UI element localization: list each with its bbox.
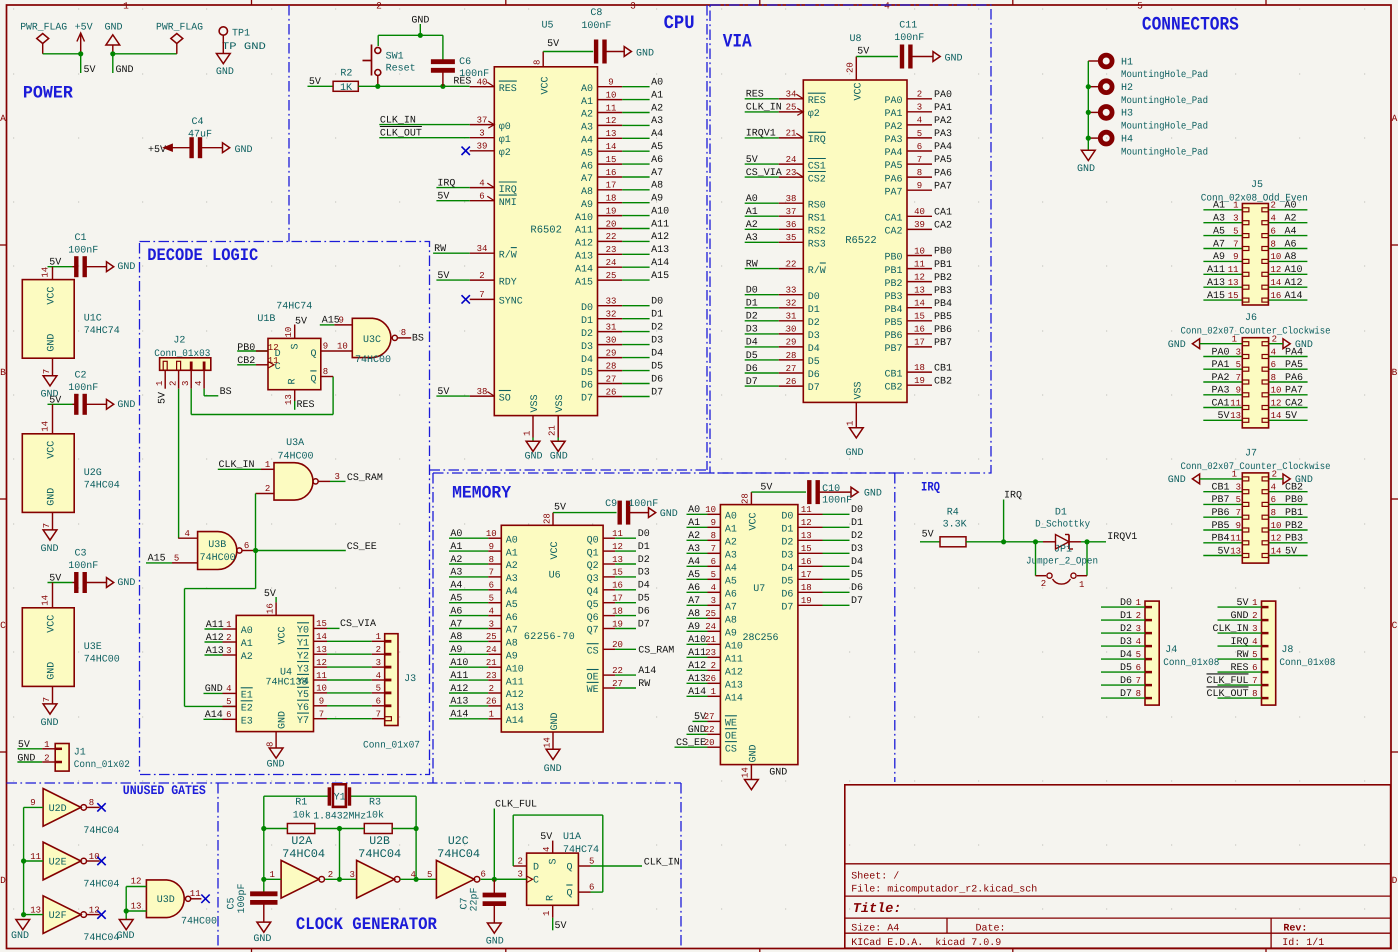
- svg-text:16: 16: [265, 603, 275, 614]
- svg-text:D3: D3: [851, 544, 863, 555]
- svg-text:GND: GND: [116, 65, 134, 76]
- svg-text:74HC04: 74HC04: [83, 880, 119, 891]
- svg-text:A5: A5: [651, 142, 663, 153]
- svg-text:2: 2: [1272, 470, 1277, 480]
- svg-text:2: 2: [265, 484, 270, 494]
- svg-text:A0: A0: [241, 626, 253, 637]
- svg-text:File: micomputador_r2.kicad_sc: File: micomputador_r2.kicad_sch: [851, 884, 1037, 896]
- svg-text:PB0: PB0: [934, 247, 952, 258]
- svg-text:1: 1: [44, 740, 49, 750]
- svg-text:D5: D5: [651, 361, 663, 372]
- svg-text:RES: RES: [746, 90, 764, 101]
- svg-text:GND: GND: [1168, 475, 1186, 486]
- svg-text:D7: D7: [651, 387, 663, 398]
- svg-text:A14: A14: [575, 264, 593, 275]
- svg-text:3: 3: [630, 1, 636, 12]
- svg-text:SYNC: SYNC: [499, 297, 523, 308]
- svg-text:3: 3: [181, 381, 191, 386]
- svg-text:4: 4: [185, 529, 190, 539]
- svg-text:74HC74: 74HC74: [276, 302, 312, 313]
- svg-text:U3D: U3D: [157, 895, 175, 906]
- svg-text:U2D: U2D: [49, 804, 67, 815]
- svg-text:12: 12: [914, 272, 925, 282]
- svg-text:A2: A2: [725, 538, 737, 549]
- svg-text:11: 11: [1230, 534, 1241, 544]
- svg-text:Q1: Q1: [587, 548, 599, 559]
- svg-text:PB2: PB2: [884, 279, 902, 290]
- svg-text:C11: C11: [899, 21, 917, 32]
- svg-text:34: 34: [786, 90, 797, 100]
- svg-text:VCC: VCC: [541, 76, 552, 94]
- svg-text:A1: A1: [241, 639, 253, 650]
- svg-text:U3C: U3C: [363, 335, 381, 346]
- svg-text:RW: RW: [638, 679, 650, 690]
- svg-text:Id: 1/1: Id: 1/1: [1282, 937, 1324, 949]
- svg-text:11: 11: [268, 356, 279, 366]
- svg-text:GND: GND: [117, 400, 135, 411]
- svg-text:CB2: CB2: [884, 382, 902, 393]
- svg-text:WE: WE: [587, 685, 599, 696]
- svg-text:D2: D2: [638, 555, 650, 566]
- svg-text:D0: D0: [651, 297, 663, 308]
- svg-text:100nF: 100nF: [68, 245, 98, 256]
- svg-text:C: C: [533, 876, 539, 887]
- svg-text:VCC: VCC: [550, 541, 561, 559]
- svg-text:RS3: RS3: [808, 240, 826, 251]
- svg-text:PB1: PB1: [934, 260, 952, 271]
- svg-text:A15: A15: [575, 277, 593, 288]
- svg-text:5V: 5V: [547, 39, 559, 50]
- svg-text:D7: D7: [746, 377, 758, 388]
- svg-text:6: 6: [1271, 226, 1276, 236]
- svg-text:11: 11: [30, 852, 41, 862]
- svg-text:GND: GND: [117, 262, 135, 273]
- svg-text:1: 1: [376, 632, 381, 642]
- svg-text:4: 4: [884, 1, 890, 12]
- svg-text:U2E: U2E: [49, 858, 67, 869]
- svg-text:100nF: 100nF: [822, 496, 852, 507]
- svg-text:A11: A11: [651, 219, 669, 230]
- svg-text:CS_RAM: CS_RAM: [638, 646, 674, 657]
- svg-text:32: 32: [786, 299, 797, 309]
- svg-text:GND: GND: [117, 931, 135, 942]
- svg-text:4: 4: [917, 116, 922, 126]
- svg-text:74HC04: 74HC04: [83, 826, 119, 837]
- svg-text:14: 14: [606, 142, 617, 152]
- svg-text:62256-70: 62256-70: [524, 632, 575, 643]
- svg-text:PA3: PA3: [934, 129, 952, 140]
- svg-text:5V: 5V: [295, 317, 307, 328]
- svg-text:U3E: U3E: [84, 642, 102, 653]
- svg-text:GND: GND: [41, 544, 59, 555]
- svg-text:PB7: PB7: [934, 338, 952, 349]
- svg-text:9: 9: [917, 181, 922, 191]
- svg-text:C8: C8: [590, 8, 602, 19]
- svg-text:D2: D2: [851, 531, 863, 542]
- svg-text:PA4: PA4: [884, 148, 902, 159]
- svg-text:A1: A1: [506, 548, 518, 559]
- svg-text:40: 40: [914, 207, 925, 217]
- svg-text:29: 29: [606, 348, 617, 358]
- svg-text:IRQ: IRQ: [437, 178, 455, 189]
- svg-text:27: 27: [786, 364, 797, 374]
- svg-text:A2: A2: [746, 220, 758, 231]
- svg-text:R: R: [546, 895, 557, 901]
- svg-text:Conn_01x08: Conn_01x08: [1163, 658, 1219, 669]
- svg-text:A5: A5: [506, 600, 518, 611]
- svg-text:PB4: PB4: [884, 305, 902, 316]
- svg-text:A7: A7: [725, 603, 737, 614]
- svg-text:A2: A2: [241, 652, 253, 663]
- svg-text:1K: 1K: [340, 83, 352, 94]
- svg-text:74HC00: 74HC00: [181, 917, 217, 928]
- svg-text:D1: D1: [638, 542, 650, 553]
- svg-text:7: 7: [917, 155, 922, 165]
- svg-text:3.3K: 3.3K: [943, 520, 967, 531]
- svg-text:8: 8: [401, 328, 406, 338]
- svg-text:D3: D3: [651, 335, 663, 346]
- svg-text:PB5: PB5: [934, 312, 952, 323]
- svg-text:D4: D4: [851, 557, 863, 568]
- svg-text:GND: GND: [117, 578, 135, 589]
- svg-text:2: 2: [479, 271, 484, 281]
- svg-text:IRQ: IRQ: [499, 185, 517, 196]
- svg-text:Q5: Q5: [587, 600, 599, 611]
- svg-text:74HC04: 74HC04: [437, 848, 480, 861]
- svg-text:J5: J5: [1251, 180, 1263, 191]
- svg-text:24: 24: [786, 155, 797, 165]
- svg-text:D6: D6: [781, 590, 793, 601]
- svg-text:D1: D1: [851, 518, 863, 529]
- svg-text:PA0: PA0: [934, 90, 952, 101]
- svg-text:4: 4: [479, 178, 484, 188]
- svg-text:16: 16: [606, 168, 617, 178]
- svg-text:H1: H1: [1121, 57, 1133, 68]
- svg-text:Y5: Y5: [297, 690, 309, 701]
- svg-text:C10: C10: [822, 484, 840, 495]
- svg-text:2: 2: [376, 1, 382, 12]
- svg-text:5: 5: [589, 857, 594, 867]
- svg-text:RES: RES: [808, 96, 826, 107]
- svg-text:2: 2: [711, 661, 716, 671]
- svg-text:GND: GND: [278, 711, 289, 729]
- svg-text:1: 1: [711, 687, 716, 697]
- svg-text:7: 7: [319, 710, 324, 720]
- svg-text:R4: R4: [947, 508, 959, 519]
- svg-text:PA1: PA1: [884, 109, 902, 120]
- svg-text:3: 3: [518, 870, 523, 880]
- svg-text:U2C: U2C: [448, 835, 469, 848]
- svg-text:15: 15: [914, 312, 925, 322]
- svg-text:6: 6: [489, 581, 494, 591]
- svg-text:D6: D6: [651, 374, 663, 385]
- svg-text:23: 23: [606, 245, 617, 255]
- svg-text:S: S: [291, 343, 302, 349]
- svg-text:D3: D3: [746, 325, 758, 336]
- svg-text:A3: A3: [581, 123, 593, 134]
- svg-text:A8: A8: [581, 187, 593, 198]
- svg-text:A8: A8: [651, 181, 663, 192]
- svg-text:3: 3: [711, 596, 716, 606]
- svg-text:4: 4: [226, 684, 231, 694]
- svg-text:33: 33: [606, 297, 617, 307]
- svg-text:D7: D7: [808, 383, 820, 394]
- svg-text:10: 10: [705, 505, 716, 515]
- svg-text:D_Schottky: D_Schottky: [1035, 519, 1090, 531]
- svg-text:2: 2: [226, 633, 231, 643]
- svg-text:1: 1: [1232, 335, 1237, 345]
- svg-text:JP1: JP1: [1054, 545, 1072, 556]
- svg-text:Reset: Reset: [386, 64, 416, 75]
- svg-text:J1: J1: [74, 748, 86, 759]
- svg-text:PB4: PB4: [934, 299, 952, 310]
- svg-text:D5: D5: [851, 570, 863, 581]
- svg-text:30: 30: [786, 325, 797, 335]
- svg-text:9: 9: [608, 78, 613, 88]
- svg-text:D6: D6: [638, 606, 650, 617]
- svg-text:A0: A0: [746, 194, 758, 205]
- svg-text:A6: A6: [581, 161, 593, 172]
- svg-text:12: 12: [316, 658, 327, 668]
- svg-text:8: 8: [489, 555, 494, 565]
- svg-text:PA6: PA6: [934, 168, 952, 179]
- svg-text:2: 2: [44, 753, 49, 763]
- svg-text:IRQV1: IRQV1: [1107, 532, 1137, 543]
- svg-text:31: 31: [606, 322, 617, 332]
- svg-text:PA6: PA6: [884, 174, 902, 185]
- svg-text:A11: A11: [575, 226, 593, 237]
- svg-text:D4: D4: [746, 338, 758, 349]
- svg-text:A12: A12: [575, 239, 593, 250]
- svg-text:19: 19: [914, 376, 925, 386]
- svg-text:U5: U5: [542, 21, 554, 32]
- svg-text:14: 14: [41, 421, 51, 432]
- svg-text:CS: CS: [725, 744, 737, 755]
- svg-text:5V: 5V: [84, 65, 96, 76]
- svg-text:GND: GND: [550, 452, 568, 463]
- svg-text:GND: GND: [636, 49, 654, 60]
- svg-text:A7: A7: [651, 168, 663, 179]
- svg-text:14: 14: [316, 632, 327, 642]
- svg-text:11: 11: [801, 505, 812, 515]
- svg-text:PA0: PA0: [884, 96, 902, 107]
- svg-text:J4: J4: [1165, 645, 1177, 656]
- svg-text:Q4: Q4: [587, 587, 599, 598]
- svg-text:PB6: PB6: [884, 331, 902, 342]
- svg-text:U6: U6: [549, 571, 561, 582]
- svg-text:19: 19: [801, 596, 812, 606]
- svg-text:A3: A3: [725, 551, 737, 562]
- svg-text:A2: A2: [581, 110, 593, 121]
- svg-text:7: 7: [479, 290, 484, 300]
- svg-text:MEMORY: MEMORY: [452, 484, 511, 504]
- svg-text:2: 2: [328, 870, 333, 880]
- svg-text:D: D: [0, 875, 6, 886]
- svg-text:74HC00: 74HC00: [355, 355, 391, 366]
- svg-text:26: 26: [606, 387, 617, 397]
- svg-text:RES: RES: [297, 400, 315, 411]
- svg-text:Y0: Y0: [297, 626, 309, 637]
- svg-text:MountingHole_Pad: MountingHole_Pad: [1121, 121, 1208, 133]
- svg-text:6: 6: [226, 710, 231, 720]
- svg-text:VSS: VSS: [854, 381, 865, 399]
- svg-text:6: 6: [481, 870, 486, 880]
- svg-text:A7: A7: [581, 174, 593, 185]
- svg-text:25: 25: [705, 609, 716, 619]
- svg-text:100pF: 100pF: [237, 883, 248, 913]
- svg-text:R3: R3: [369, 798, 381, 809]
- svg-text:21: 21: [548, 425, 558, 436]
- svg-text:Y1: Y1: [297, 639, 309, 650]
- svg-text:PA7: PA7: [934, 181, 952, 192]
- svg-text:3: 3: [479, 129, 484, 139]
- svg-text:CPU: CPU: [664, 12, 695, 34]
- svg-text:Conn_01x07: Conn_01x07: [363, 741, 420, 752]
- svg-text:GND: GND: [486, 937, 504, 948]
- svg-text:PA7: PA7: [884, 187, 902, 198]
- svg-text:13: 13: [316, 645, 327, 655]
- svg-text:16: 16: [801, 557, 812, 567]
- svg-text:1: 1: [542, 911, 552, 916]
- svg-text:GND: GND: [748, 744, 759, 762]
- svg-text:A0: A0: [506, 535, 518, 546]
- svg-text:Y2: Y2: [297, 651, 309, 662]
- svg-text:S: S: [549, 858, 560, 864]
- svg-text:1: 1: [265, 460, 270, 470]
- svg-text:GND: GND: [945, 54, 963, 65]
- svg-text:9: 9: [489, 542, 494, 552]
- svg-text:R/W: R/W: [808, 265, 826, 277]
- svg-text:13: 13: [801, 531, 812, 541]
- svg-text:GND: GND: [525, 452, 543, 463]
- svg-text:7: 7: [42, 523, 52, 528]
- svg-text:+5V: +5V: [75, 23, 93, 34]
- svg-text:17: 17: [914, 338, 925, 348]
- svg-text:U3B: U3B: [208, 540, 226, 551]
- svg-text:A2: A2: [651, 103, 663, 114]
- svg-text:26: 26: [486, 697, 497, 707]
- svg-text:A12: A12: [725, 668, 743, 679]
- svg-text:U2F: U2F: [49, 911, 67, 922]
- svg-text:R6522: R6522: [845, 235, 877, 247]
- svg-text:R1: R1: [295, 798, 307, 809]
- svg-text:22: 22: [606, 232, 617, 242]
- svg-text:A8: A8: [725, 616, 737, 627]
- svg-text:D7: D7: [581, 394, 593, 405]
- svg-text:A11: A11: [506, 677, 524, 688]
- svg-text:Q0: Q0: [587, 535, 599, 546]
- svg-text:TP GND: TP GND: [222, 42, 266, 53]
- svg-text:A12: A12: [506, 690, 524, 701]
- svg-text:PB0: PB0: [237, 343, 255, 354]
- svg-text:R: R: [288, 378, 299, 384]
- svg-text:11: 11: [190, 889, 201, 899]
- svg-text:E2: E2: [241, 704, 253, 715]
- svg-text:PA1: PA1: [934, 103, 952, 114]
- svg-text:14: 14: [41, 267, 51, 278]
- svg-text:TP1: TP1: [232, 29, 250, 40]
- svg-text:CLK_FUL: CLK_FUL: [495, 800, 537, 811]
- svg-text:12: 12: [1271, 534, 1282, 544]
- svg-text:PB7: PB7: [884, 344, 902, 355]
- svg-text:Q: Q: [310, 349, 316, 360]
- svg-text:2: 2: [169, 381, 179, 386]
- svg-text:CB2: CB2: [934, 376, 952, 387]
- svg-text:CS_RAM: CS_RAM: [347, 473, 383, 484]
- svg-text:C6: C6: [459, 57, 471, 68]
- svg-text:RW: RW: [746, 259, 758, 270]
- svg-text:4: 4: [711, 583, 716, 593]
- svg-text:BS: BS: [412, 334, 424, 345]
- svg-text:D1: D1: [781, 525, 793, 536]
- svg-text:18: 18: [914, 363, 925, 373]
- svg-text:C: C: [0, 620, 6, 631]
- svg-text:D2: D2: [651, 322, 663, 333]
- svg-text:GND: GND: [550, 712, 561, 730]
- svg-text:A4: A4: [581, 136, 593, 147]
- svg-text:E3: E3: [241, 717, 253, 728]
- svg-text:CS1: CS1: [808, 161, 826, 172]
- svg-text:A13: A13: [725, 681, 743, 692]
- svg-text:100nF: 100nF: [581, 21, 611, 32]
- svg-text:40: 40: [477, 78, 488, 88]
- svg-text:22: 22: [786, 259, 797, 269]
- svg-text:100nF: 100nF: [68, 561, 98, 572]
- svg-text:5V: 5V: [437, 192, 449, 203]
- svg-text:A7: A7: [506, 626, 518, 637]
- svg-text:Title:: Title:: [853, 902, 902, 917]
- svg-text:H2: H2: [1121, 83, 1133, 94]
- svg-text:5: 5: [917, 129, 922, 139]
- svg-text:24: 24: [486, 645, 497, 655]
- svg-text:IRQ: IRQ: [808, 135, 826, 146]
- svg-text:11: 11: [606, 103, 617, 113]
- svg-text:E1: E1: [241, 691, 253, 702]
- svg-text:9: 9: [339, 316, 344, 326]
- svg-text:CS2: CS2: [808, 174, 826, 185]
- svg-text:C5: C5: [227, 897, 238, 909]
- svg-text:18: 18: [606, 194, 617, 204]
- svg-text:2: 2: [917, 90, 922, 100]
- svg-text:VCC: VCC: [47, 615, 58, 633]
- svg-text:A15: A15: [651, 271, 669, 282]
- svg-text:5V: 5V: [264, 589, 276, 600]
- svg-text:C3: C3: [75, 549, 87, 560]
- svg-text:1: 1: [489, 710, 494, 720]
- svg-text:A5: A5: [581, 148, 593, 159]
- svg-text:SW1: SW1: [386, 52, 404, 63]
- svg-text:20: 20: [704, 738, 715, 748]
- svg-text:VSS: VSS: [530, 394, 541, 412]
- svg-text:UNUSED GATES: UNUSED GATES: [123, 783, 206, 798]
- svg-text:A10: A10: [651, 206, 669, 217]
- svg-text:φ2: φ2: [808, 109, 820, 120]
- svg-text:A9: A9: [581, 200, 593, 211]
- svg-text:A4: A4: [651, 129, 663, 140]
- svg-text:Y6: Y6: [297, 703, 309, 714]
- svg-text:74HC04: 74HC04: [83, 933, 119, 944]
- svg-text:D3: D3: [808, 331, 820, 342]
- svg-text:VIA: VIA: [723, 31, 752, 53]
- svg-text:GND: GND: [105, 23, 123, 34]
- svg-text:CONNECTORS: CONNECTORS: [1142, 14, 1239, 36]
- svg-text:A3: A3: [746, 233, 758, 244]
- svg-text:37: 37: [477, 115, 488, 125]
- svg-text:12: 12: [131, 876, 142, 886]
- svg-text:28: 28: [606, 361, 617, 371]
- svg-text:A4: A4: [506, 587, 518, 598]
- svg-text:WE: WE: [725, 719, 737, 730]
